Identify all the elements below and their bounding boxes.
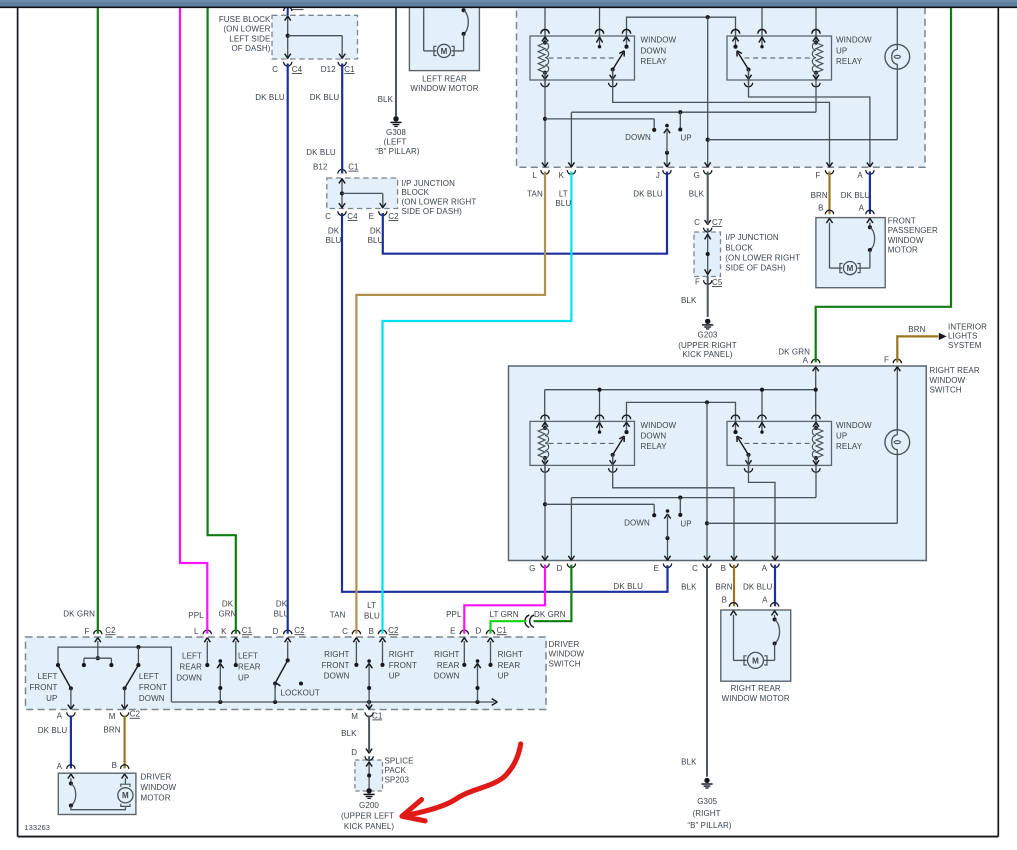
left rear window motor box [409, 0, 479, 71]
switch left front up [58, 665, 71, 688]
svg-text:K: K [559, 171, 565, 180]
wire TAN top box L to driver switch C [356, 172, 545, 634]
svg-text:RIGHT REAR: RIGHT REAR [731, 684, 781, 693]
svg-text:DK BLU: DK BLU [633, 190, 663, 199]
diagram left border [17, 7, 19, 836]
svg-text:C2: C2 [388, 626, 399, 635]
svg-text:J: J [656, 171, 660, 180]
fuse block connector stub at top [287, 7, 289, 16]
svg-text:C: C [325, 212, 331, 221]
svg-text:C1: C1 [242, 626, 253, 635]
svg-text:(ON LOWER RIGHT: (ON LOWER RIGHT [402, 198, 477, 207]
svg-text:C5: C5 [712, 278, 723, 287]
svg-text:SIDE OF DASH): SIDE OF DASH) [725, 263, 786, 272]
svg-text:A: A [57, 762, 63, 771]
right rear window switch box [509, 366, 927, 561]
motor M1 left rear [434, 46, 437, 55]
svg-text:D12: D12 [321, 65, 336, 74]
wire BRN middle box F to interior lights [897, 336, 938, 362]
svg-text:GRN: GRN [218, 609, 236, 618]
svg-text:A: A [762, 595, 768, 604]
svg-text:F: F [85, 627, 90, 636]
i/p junction block 2 box [694, 232, 721, 277]
svg-text:BRN: BRN [908, 325, 925, 334]
node junction middle box [705, 400, 709, 404]
wire BLK to G308 [395, 7, 397, 116]
svg-text:UP: UP [836, 432, 847, 441]
relay box [727, 36, 832, 80]
svg-text:DOWN: DOWN [324, 672, 350, 681]
svg-text:FRONT: FRONT [321, 661, 349, 670]
svg-text:E: E [450, 626, 455, 635]
driver window motor box [58, 773, 136, 814]
svg-text:DK GRN: DK GRN [63, 609, 95, 618]
svg-text:M: M [847, 264, 854, 273]
svg-text:F: F [884, 356, 889, 365]
svg-text:LEFT REAR: LEFT REAR [422, 74, 467, 83]
svg-text:D: D [557, 564, 563, 573]
svg-text:M: M [122, 791, 129, 800]
svg-text:F: F [695, 277, 700, 286]
svg-text:BRN: BRN [103, 725, 120, 734]
svg-text:INTERIOR: INTERIOR [948, 322, 987, 331]
svg-text:DRIVER: DRIVER [549, 640, 580, 649]
svg-text:BLU: BLU [368, 236, 384, 245]
diagram right border [997, 7, 999, 836]
svg-text:E: E [369, 212, 374, 221]
relay coil [544, 31, 546, 43]
svg-text:WINDOW MOTOR: WINDOW MOTOR [722, 694, 790, 703]
relay coil [815, 31, 817, 43]
svg-text:KICK PANEL): KICK PANEL) [682, 350, 733, 359]
svg-text:C2: C2 [294, 626, 305, 635]
svg-text:DK: DK [370, 226, 382, 235]
svg-text:B12: B12 [313, 162, 328, 171]
svg-text:TAN: TAN [330, 610, 346, 619]
svg-text:UP: UP [46, 694, 57, 703]
svg-text:WINDOW: WINDOW [888, 236, 924, 245]
wire PPL feed to driver switch L [180, 7, 207, 634]
svg-text:B: B [722, 595, 727, 604]
svg-text:F: F [816, 171, 821, 180]
svg-text:WINDOW: WINDOW [836, 421, 872, 430]
svg-text:WINDOW: WINDOW [549, 650, 585, 659]
switch left rear pair [206, 641, 208, 664]
svg-text:RIGHT: RIGHT [434, 650, 459, 659]
svg-text:LT GRN: LT GRN [489, 610, 518, 619]
svg-text:WINDOW: WINDOW [930, 376, 966, 385]
svg-text:WINDOW: WINDOW [641, 421, 677, 430]
lamp L2 switch illumination (middle box) [885, 430, 910, 455]
svg-text:C: C [694, 218, 700, 227]
node UP contact (top box) [678, 127, 682, 131]
wire common rail of driver switch [171, 701, 494, 703]
svg-text:WINDOW MOTOR: WINDOW MOTOR [410, 84, 478, 93]
svg-text:FUSE BLOCK: FUSE BLOCK [219, 15, 271, 24]
svg-text:BRN: BRN [715, 583, 732, 592]
svg-text:LEFT: LEFT [238, 651, 258, 660]
svg-text:UP: UP [238, 673, 249, 682]
svg-text:C4: C4 [347, 212, 358, 221]
wire G net with DOWN contact (middle box) [544, 457, 546, 560]
svg-text:SYSTEM: SYSTEM [948, 341, 982, 350]
svg-text:C: C [692, 564, 698, 573]
wire DK GRN feed to driver switch K [208, 7, 236, 634]
svg-text:BLK: BLK [378, 95, 394, 104]
svg-text:PPL: PPL [188, 611, 204, 620]
arrow to interior lights system [939, 333, 947, 340]
wire up relay output to A pin [749, 69, 870, 167]
svg-text:WINDOW: WINDOW [141, 783, 177, 792]
svg-text:RIGHT REAR: RIGHT REAR [930, 366, 980, 375]
svg-text:DK BLU: DK BLU [841, 191, 871, 200]
svg-text:I/P JUNCTION: I/P JUNCTION [402, 179, 456, 188]
svg-text:RIGHT: RIGHT [498, 650, 523, 659]
ground G305 [704, 778, 709, 783]
relay middle pin [761, 416, 763, 432]
switch lockout [287, 641, 289, 659]
wire up relay output to A pin (middle box) [749, 454, 776, 560]
wire M-C1 tap [368, 702, 370, 710]
svg-text:WINDOW: WINDOW [641, 35, 677, 44]
svg-text:G200: G200 [359, 801, 379, 810]
svg-text:BLU: BLU [364, 611, 380, 620]
ground G203 [705, 319, 710, 324]
svg-text:MOTOR: MOTOR [141, 793, 171, 802]
svg-text:UP: UP [680, 134, 691, 143]
wire DK BLU driver switch A to driver motor A [70, 716, 72, 769]
wire DK GRN feed to driver switch F [97, 7, 99, 634]
svg-text:OF DASH): OF DASH) [231, 44, 270, 53]
wire LT GRN splice to driver switch D [491, 621, 527, 634]
svg-text:BLU: BLU [326, 236, 342, 245]
left rear window switch dashed box [517, 0, 926, 167]
diagram bottom border [18, 836, 999, 838]
top title bar [0, 0, 1017, 7]
wire down relay output to B pin (middle box) [613, 454, 734, 560]
svg-text:“B” PILLAR): “B” PILLAR) [687, 821, 731, 830]
svg-text:(UPPER RIGHT: (UPPER RIGHT [678, 341, 737, 350]
wire DK BLU middle box A to right rear motor A [774, 565, 776, 607]
svg-text:B: B [112, 761, 117, 770]
svg-text:DRIVER: DRIVER [141, 772, 172, 781]
svg-text:A: A [57, 712, 63, 721]
svg-text:(ON LOWER RIGHT: (ON LOWER RIGHT [725, 253, 800, 262]
connector B12-C1 into ip junction 1 [338, 169, 346, 173]
wire down relay output to F pin [613, 69, 830, 167]
svg-text:SPLICE: SPLICE [385, 757, 414, 766]
svg-text:C7: C7 [712, 218, 723, 227]
svg-text:133263: 133263 [24, 823, 50, 832]
lamp L1 switch illumination (top box) [885, 44, 910, 69]
connector C-C7 [705, 220, 711, 225]
bar bottom line [0, 6, 1017, 8]
wire BLK middle box C to ground G305 [706, 565, 708, 777]
svg-text:RIGHT: RIGHT [324, 650, 349, 659]
relay box [530, 36, 635, 80]
motor M3 right rear [744, 656, 747, 665]
svg-text:DOWN: DOWN [624, 519, 650, 528]
connector D into splice pack [366, 749, 372, 754]
svg-text:G: G [529, 564, 535, 573]
svg-text:LIGHTS: LIGHTS [948, 332, 978, 341]
svg-text:BLOCK: BLOCK [402, 188, 430, 197]
svg-text:B: B [818, 204, 823, 213]
wire E movable contact (middle box) [667, 538, 669, 560]
node DOWN contact (top box) [652, 128, 656, 132]
svg-text:BLK: BLK [689, 190, 705, 199]
switch right front pair [355, 641, 357, 664]
wire to up relay coil [815, 7, 817, 33]
wire DK BLU ip junction E-C2 to top box J [383, 172, 667, 254]
svg-text:C1: C1 [344, 65, 355, 74]
svg-text:C1: C1 [372, 711, 383, 720]
svg-text:RELAY: RELAY [836, 442, 863, 451]
relay dashed link [549, 57, 617, 59]
svg-text:SWITCH: SWITCH [549, 659, 581, 668]
wire DK GRN middle box D to splice [534, 565, 572, 621]
svg-text:L: L [194, 627, 199, 636]
svg-text:M: M [351, 712, 358, 721]
svg-text:BLK: BLK [681, 758, 697, 767]
svg-text:UP: UP [498, 672, 509, 681]
svg-text:G: G [694, 171, 700, 180]
relay coil [544, 416, 546, 428]
node lamp branch [706, 138, 710, 142]
svg-text:SP203: SP203 [385, 776, 410, 785]
svg-text:DOWN: DOWN [176, 673, 202, 682]
switch left front down [125, 665, 139, 688]
svg-text:DK BLU: DK BLU [255, 93, 285, 102]
svg-text:B: B [369, 627, 374, 636]
svg-text:PACK: PACK [385, 766, 407, 775]
driver window switch dashed box [26, 637, 547, 710]
wire to up relay middle pin [761, 7, 763, 33]
svg-text:RELAY: RELAY [641, 57, 668, 66]
wire top bus of driver switch [58, 647, 171, 702]
wire C vertical (middle box) [706, 402, 708, 560]
svg-text:G203: G203 [698, 331, 718, 340]
svg-text:D: D [273, 627, 279, 636]
driver switch top pins [94, 630, 102, 634]
wire link down relay switch to up relay switch [627, 17, 736, 33]
ip junction 1 internal wires [341, 178, 343, 209]
wire BLK top box G to ground G203 [707, 172, 709, 225]
wire BLK driver switch M-C1 to splice pack [368, 716, 370, 752]
ground G200 [366, 788, 371, 793]
relay dashed link [549, 442, 617, 444]
svg-text:LT: LT [367, 601, 376, 610]
relay switch [626, 416, 628, 432]
svg-text:LEFT SIDE: LEFT SIDE [229, 34, 270, 43]
svg-text:FRONT: FRONT [888, 217, 916, 226]
svg-text:DOWN: DOWN [434, 672, 460, 681]
svg-text:D: D [351, 748, 357, 757]
svg-text:UP: UP [680, 519, 691, 528]
wire to down relay coil [544, 7, 546, 33]
svg-text:DOWN: DOWN [641, 46, 667, 55]
wire DK BLU top box A to passenger motor A [869, 172, 871, 214]
svg-text:M: M [109, 712, 116, 721]
svg-text:DK BLU: DK BLU [614, 582, 644, 591]
svg-text:DOWN: DOWN [641, 432, 667, 441]
relay coil [815, 416, 817, 428]
relay dashed link [745, 57, 811, 59]
ip junction 2 internal wire [707, 232, 709, 277]
svg-text:M: M [752, 656, 759, 665]
wire lamp net (middle box) [896, 366, 898, 429]
splice pack internal wire [368, 760, 370, 791]
wire DK GRN from top to middle box A [816, 7, 951, 362]
inline connector LT GRN / DK GRN [525, 615, 529, 627]
svg-text:LEFT: LEFT [182, 651, 202, 660]
relay box [530, 421, 635, 465]
svg-text:A: A [803, 356, 809, 365]
svg-text:BLOCK: BLOCK [725, 243, 753, 252]
wire BRN driver switch M to driver motor B [123, 716, 125, 769]
left rear window motor internals [423, 7, 425, 51]
svg-text:FRONT: FRONT [29, 683, 57, 692]
svg-text:DK: DK [222, 599, 234, 608]
motor M4 driver (vertical) [121, 784, 130, 787]
svg-text:M: M [441, 47, 448, 56]
svg-text:DK GRN: DK GRN [534, 610, 566, 619]
svg-text:DK BLU: DK BLU [743, 583, 773, 592]
svg-text:LEFT: LEFT [139, 672, 159, 681]
driver window motor internals [68, 774, 74, 779]
wire BRN middle box B to right rear motor B [733, 565, 735, 607]
switch right rear pair [463, 641, 465, 664]
svg-text:B: B [721, 564, 726, 573]
svg-text:A: A [857, 171, 863, 180]
svg-text:(ON LOWER: (ON LOWER [223, 25, 270, 34]
svg-text:LT: LT [559, 189, 568, 198]
wire PPL middle box G to driver switch E [464, 565, 545, 634]
svg-text:SWITCH: SWITCH [930, 386, 962, 395]
svg-text:MOTOR: MOTOR [888, 245, 918, 254]
wire BRN top box F to passenger motor B [828, 172, 830, 214]
red annotation arrow [403, 744, 521, 816]
svg-text:REAR: REAR [498, 661, 521, 670]
svg-text:A: A [762, 564, 768, 573]
node lockout open contact [299, 681, 303, 685]
svg-text:BLK: BLK [681, 296, 697, 305]
right rear window motor internals [730, 611, 736, 616]
svg-text:BRN: BRN [811, 191, 828, 200]
svg-text:G305: G305 [697, 797, 717, 806]
svg-text:BLK: BLK [681, 583, 697, 592]
relay middle pin [599, 416, 601, 432]
svg-text:C1: C1 [348, 162, 359, 171]
svg-text:DK BLU: DK BLU [310, 93, 340, 102]
svg-text:(RIGHT: (RIGHT [693, 809, 721, 818]
front passenger window motor internals [826, 218, 832, 223]
svg-text:LEFT: LEFT [38, 672, 58, 681]
svg-text:DOWN: DOWN [139, 694, 165, 703]
wire L net with DOWN contact branch [544, 72, 546, 167]
svg-text:PPL: PPL [446, 610, 462, 619]
svg-text:A: A [859, 204, 865, 213]
svg-text:DK BLU: DK BLU [38, 726, 68, 735]
svg-text:C2: C2 [130, 710, 141, 719]
relay middle pin [599, 31, 601, 47]
svg-text:DOWN: DOWN [625, 133, 651, 142]
svg-text:RELAY: RELAY [641, 442, 668, 451]
svg-text:C2: C2 [105, 626, 116, 635]
ground G308 [393, 116, 398, 121]
svg-text:KICK PANEL): KICK PANEL) [344, 822, 395, 831]
svg-text:UP: UP [836, 46, 847, 55]
svg-text:REAR: REAR [179, 662, 202, 671]
i/p junction block 1 box [327, 178, 398, 209]
svg-text:RELAY: RELAY [836, 57, 863, 66]
wire DK BLU fuse C4 to driver switch D [287, 64, 289, 634]
wire K net line B to up relay coil [570, 112, 572, 167]
fuse block box [272, 15, 358, 59]
wire D net to up relay coil (middle box) [570, 498, 572, 561]
splice pack box [355, 760, 383, 791]
middle box bottom pins G D E C B A [542, 556, 548, 561]
middle box top pins A F [813, 367, 819, 372]
svg-text:C2: C2 [388, 212, 399, 221]
relay switch [626, 31, 628, 47]
relay dashed link [745, 442, 811, 444]
svg-text:I/P JUNCTION: I/P JUNCTION [725, 233, 779, 242]
svg-text:RIGHT: RIGHT [389, 650, 414, 659]
front passenger window motor box [816, 218, 885, 288]
svg-text:PASSENGER: PASSENGER [888, 226, 938, 235]
svg-text:K: K [221, 627, 227, 636]
svg-text:LOCKOUT: LOCKOUT [281, 689, 320, 698]
svg-text:DK: DK [276, 599, 288, 608]
wire link switch tops (middle box) [627, 402, 736, 418]
wire DK BLU fuse C1 to ip junction B12 [341, 64, 343, 174]
wire DK BLU ip junction C-C4 to middle box E [342, 213, 668, 592]
wire LT BLU top box K to driver switch B [383, 172, 572, 634]
svg-text:SIDE OF DASH): SIDE OF DASH) [402, 207, 463, 216]
svg-text:FRONT: FRONT [139, 683, 167, 692]
svg-text:REAR: REAR [238, 662, 261, 671]
svg-text:BLU: BLU [555, 199, 571, 208]
relay switch [735, 416, 737, 432]
svg-text:“B” PILLAR): “B” PILLAR) [375, 147, 419, 156]
svg-text:C: C [272, 65, 278, 74]
svg-text:C4: C4 [292, 65, 303, 74]
svg-text:C1: C1 [496, 626, 507, 635]
svg-text:DK BLU: DK BLU [306, 148, 336, 157]
svg-text:L: L [532, 171, 537, 180]
fuse block internal wires [287, 15, 289, 59]
svg-text:D: D [476, 626, 482, 635]
svg-text:UP: UP [389, 672, 400, 681]
wire to down relay middle pin [599, 7, 601, 33]
relay middle pin [761, 31, 763, 47]
wire top bus of middle box [545, 389, 816, 391]
svg-text:FRONT: FRONT [389, 661, 417, 670]
wire G vertical [707, 17, 709, 167]
svg-text:BLK: BLK [341, 729, 357, 738]
relay box [727, 421, 832, 465]
svg-text:G308: G308 [386, 128, 406, 137]
top box bottom pins L K J G F A [542, 162, 548, 167]
svg-text:REAR: REAR [437, 661, 460, 670]
svg-text:C: C [342, 627, 348, 636]
svg-text:WINDOW: WINDOW [836, 35, 872, 44]
wire lamp bottom to G [896, 69, 898, 140]
svg-text:TAN: TAN [527, 190, 543, 199]
right rear window motor box [721, 610, 791, 681]
wire J movable contact (top box) [666, 153, 668, 167]
